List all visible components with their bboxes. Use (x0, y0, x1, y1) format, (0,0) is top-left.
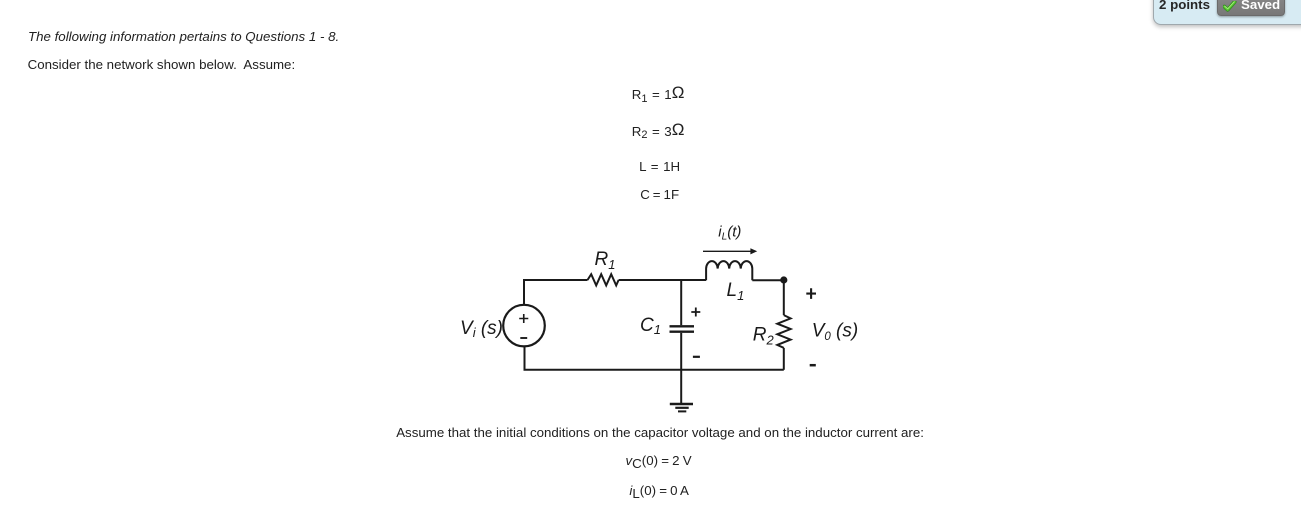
capacitor minus label (693, 356, 700, 358)
svg-text:L1: L1 (727, 280, 745, 303)
wire R2 to bottom rail (783, 348, 785, 370)
bottom assumption text (396, 423, 924, 443)
svg-text:V0 (s): V0 (s) (812, 320, 859, 343)
saved button (1217, 0, 1285, 16)
capacitor plus label (691, 308, 700, 317)
output minus label (810, 364, 816, 367)
current arrow iL(t) (703, 250, 753, 252)
resistor R1 (588, 274, 619, 285)
wire node to R2 (783, 280, 785, 315)
voltage source Vi circle (503, 305, 545, 347)
wire source top to R1 (524, 280, 588, 305)
points/saved box (1153, 0, 1301, 25)
saved label (1241, 0, 1280, 15)
svg-text:Vi (s): Vi (s) (460, 318, 503, 340)
saved check icon (1223, 1, 1237, 12)
output plus label (806, 288, 816, 299)
voltage source plus label (519, 314, 528, 323)
parameter list (632, 85, 685, 105)
capacitor C1 plates (670, 325, 695, 327)
svg-text:C1: C1 (640, 315, 661, 337)
capacitor C1 bottom wire through rail to ground (680, 333, 682, 404)
bottom rail wire (525, 346, 784, 369)
svg-text:R2: R2 (753, 325, 775, 348)
resistor R2 (777, 315, 790, 348)
wire inductor to node (752, 279, 784, 281)
svg-text:iL(t): iL(t) (718, 224, 741, 243)
ground symbol (670, 403, 693, 405)
capacitor C1 top wire (680, 280, 682, 325)
voltage source minus label (520, 337, 527, 339)
wire R1 to inductor (619, 279, 707, 281)
inductor L1 (706, 261, 752, 280)
intro text (28, 27, 339, 47)
points label (1159, 0, 1210, 15)
svg-text:R1: R1 (595, 249, 616, 272)
node junction dot (780, 276, 787, 283)
